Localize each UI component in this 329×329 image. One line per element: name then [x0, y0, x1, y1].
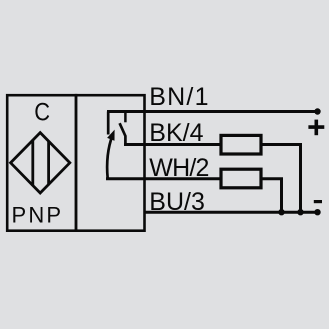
node - terminal dot: [314, 209, 320, 215]
load resistor R2: [221, 169, 261, 188]
svg-text:WH/2: WH/2: [149, 154, 208, 182]
switch fixed contact stub: [124, 112, 127, 123]
switch blade (moving contact): [120, 123, 126, 146]
switch left terminal vertical: [107, 112, 110, 135]
load resistor R1: [221, 135, 261, 154]
svg-text:BK/4: BK/4: [149, 119, 203, 147]
svg-text:PNP: PNP: [11, 203, 63, 228]
wire BU/3 (blue, pin 3, -): [145, 211, 318, 214]
sensing element diamond: [11, 133, 70, 193]
wire BK/4 (black, pin 4, output): [124, 143, 221, 146]
diamond inner chord right: [47, 141, 50, 186]
node + terminal dot: [314, 108, 320, 114]
minus symbol: [314, 200, 322, 203]
actuator curve: [107, 135, 112, 179]
junction dot R1 drop: [297, 209, 303, 215]
svg-text:BN/1: BN/1: [149, 83, 209, 111]
wire WH/2 (white, pin 2, output): [106, 177, 221, 180]
actuator arrowhead: [107, 130, 115, 141]
wire BN/1 (brown, pin 1, +): [107, 110, 318, 113]
sensor box U1 (left enclosure): [7, 95, 76, 231]
plus symbol: [308, 120, 324, 136]
diamond inner chord left: [31, 140, 34, 186]
junction dot R2 drop: [278, 209, 284, 215]
output box (right enclosure): [76, 95, 145, 231]
svg-text:BU/3: BU/3: [149, 188, 205, 216]
wire from R2 to node: [261, 179, 282, 212]
svg-text:C: C: [34, 99, 50, 127]
wire from R1 to node: [261, 145, 301, 213]
